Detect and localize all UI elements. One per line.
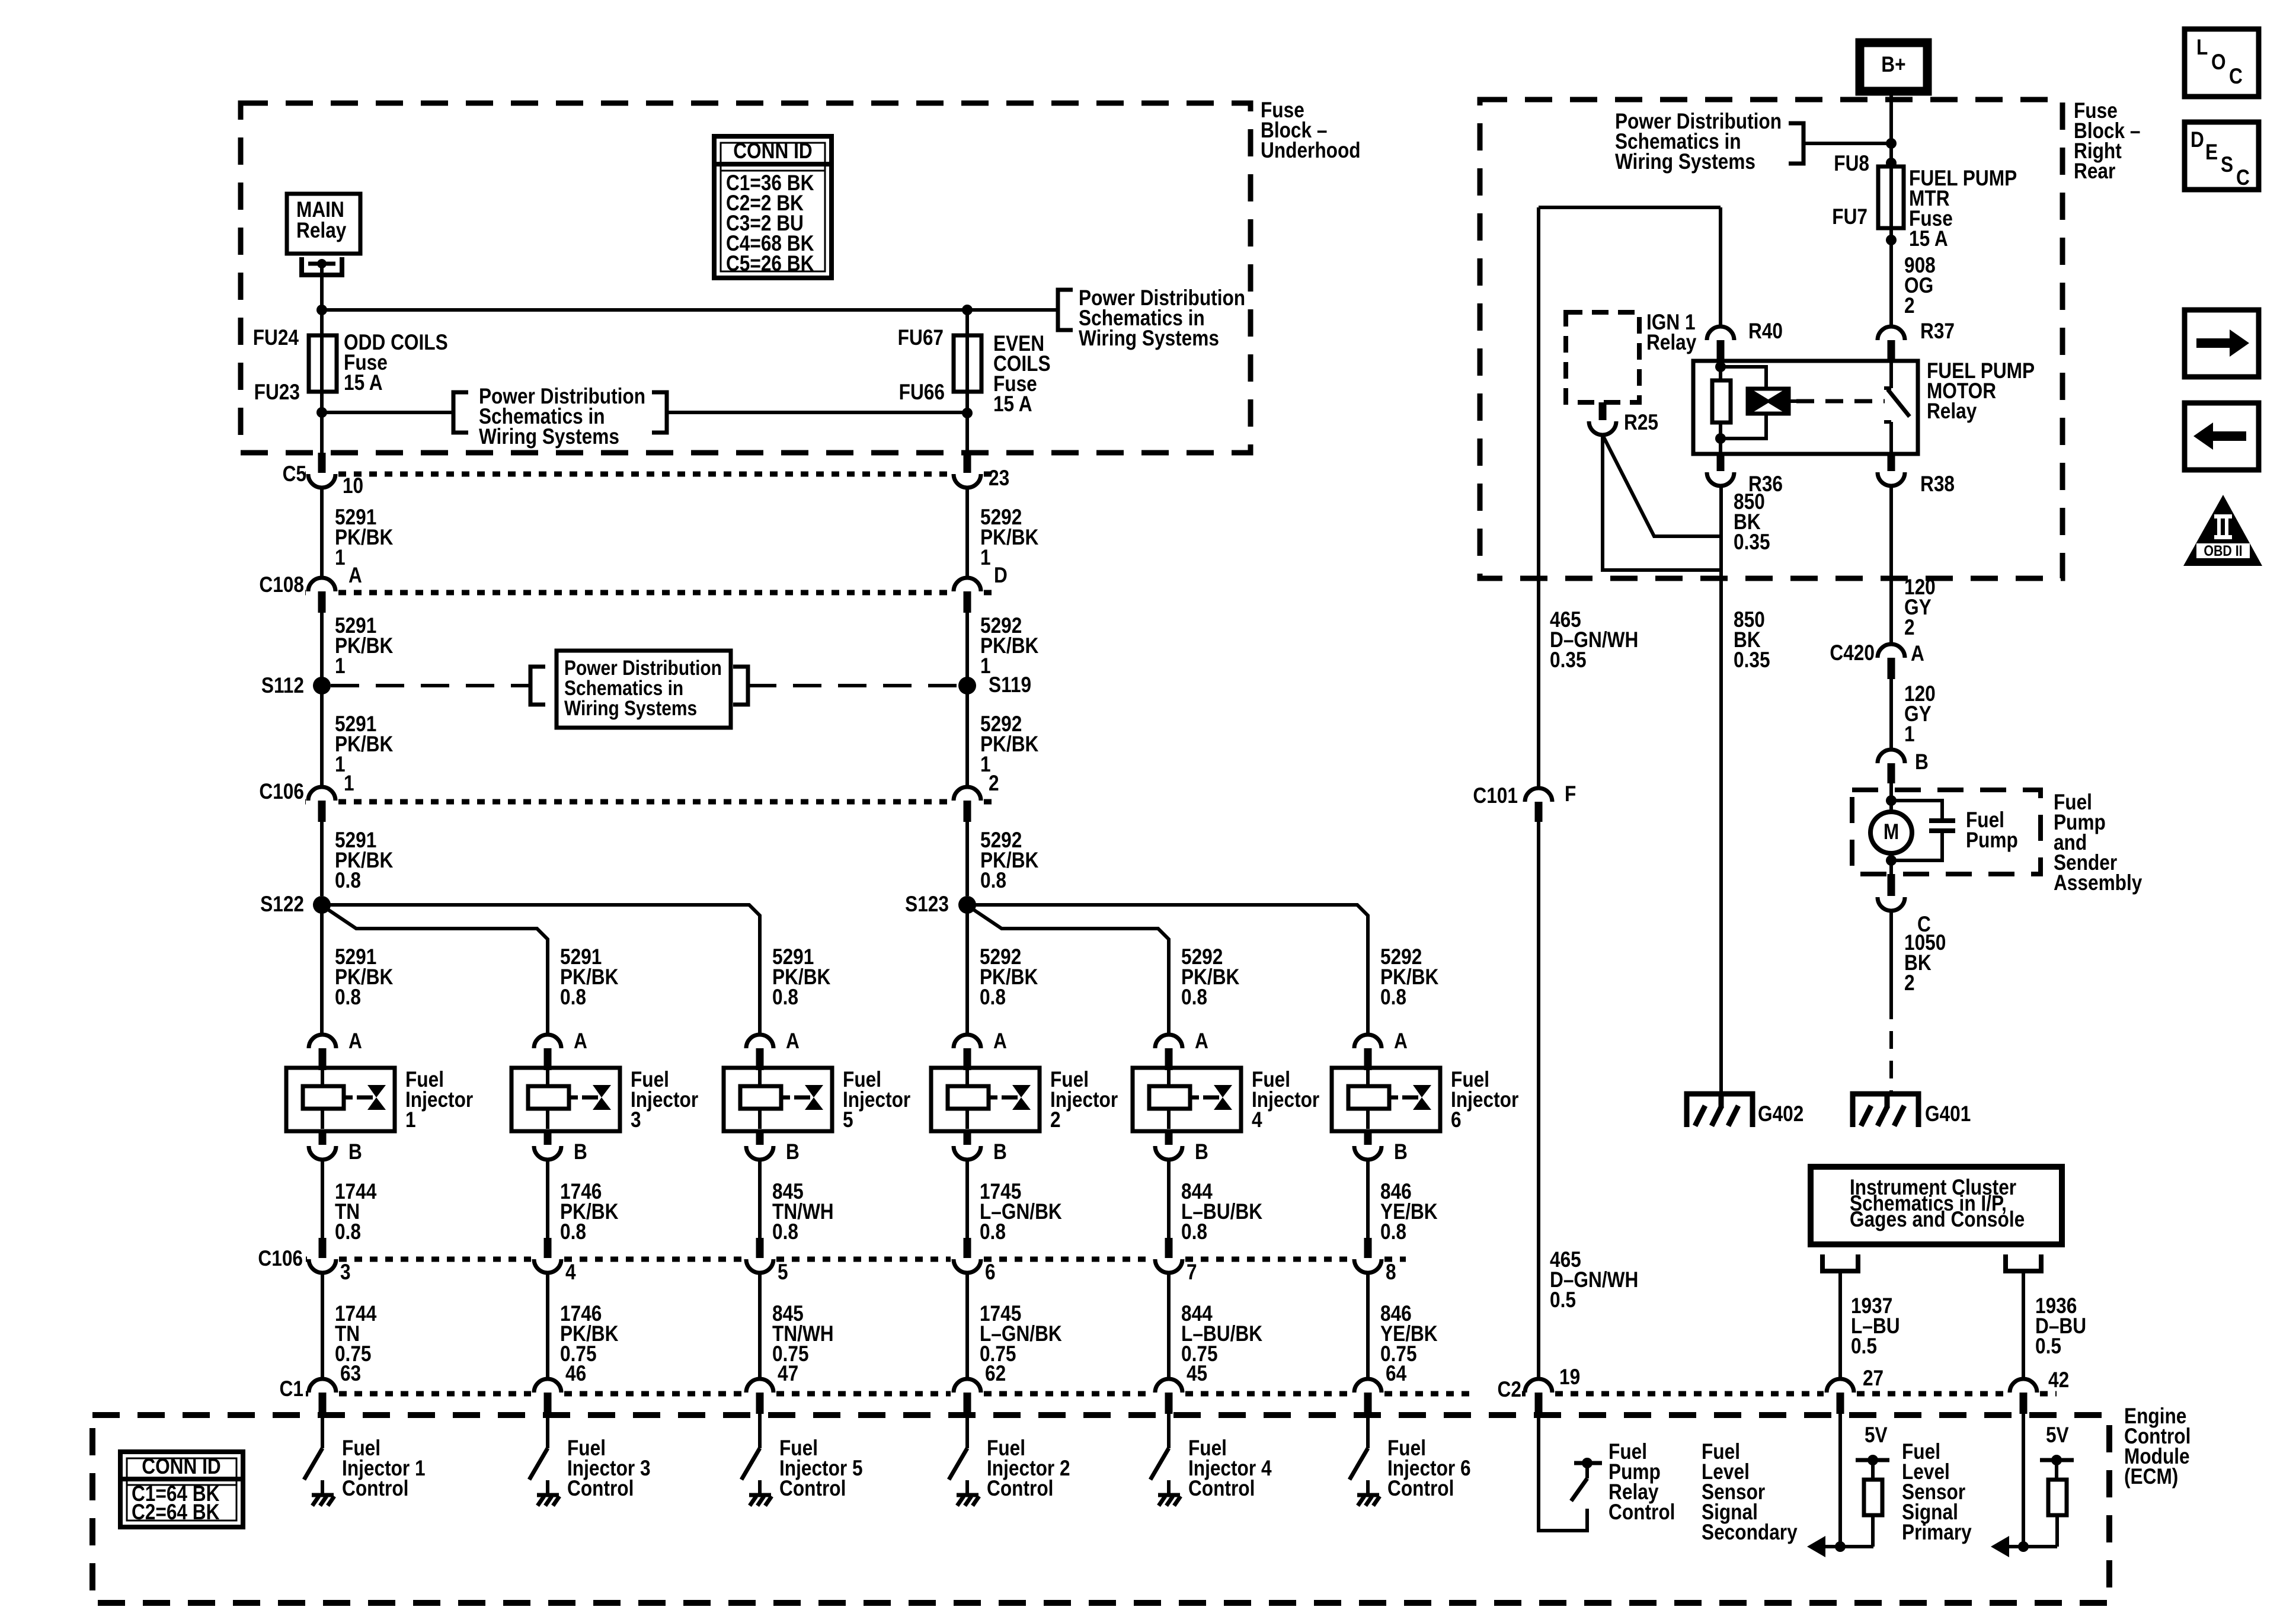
junction above FU8 bbox=[1886, 158, 1897, 168]
svg-text:27: 27 bbox=[1863, 1366, 1884, 1391]
pin number 7 (C106) bbox=[1187, 1260, 1197, 1285]
label: wire 465 D-GN/WH 0.35 bbox=[1550, 608, 1638, 673]
label: wire 1746 PK/BK 0.75 bbox=[560, 1302, 619, 1366]
connector C1 pin 64 bbox=[1354, 1379, 1382, 1414]
svg-text:46: 46 bbox=[565, 1362, 586, 1386]
connector C5 pin 10 (left) bbox=[308, 453, 335, 488]
wire: injector 3 driver to ground bbox=[546, 1480, 549, 1494]
wire: S123 branch to injector 2 column bbox=[965, 905, 969, 1035]
svg-text:2: 2 bbox=[1050, 1108, 1061, 1132]
fuel injector 2 valve bbox=[1002, 1085, 1031, 1110]
wire: pin 27 into ECM bbox=[1838, 1414, 1842, 1547]
engine control module (ECM) enclosure bbox=[92, 1415, 2109, 1603]
svg-text:R25: R25 bbox=[1624, 411, 1658, 435]
relay suppression element bbox=[1721, 367, 1796, 438]
label: wire 5291 PK/BK 0.8 feed injector 1 bbox=[335, 945, 394, 1010]
wire 844 L–BU/BK 0.75 injector 4 bbox=[1167, 1273, 1171, 1380]
svg-text:0.8: 0.8 bbox=[980, 869, 1006, 893]
pin label FU7 bbox=[1832, 205, 1868, 229]
svg-text:FU8: FU8 bbox=[1834, 152, 1869, 176]
label: wire 1937 L-BU 0.5 bbox=[1851, 1294, 1900, 1359]
label C420 bbox=[1830, 641, 1875, 665]
connector pin A injector 5 bbox=[746, 1035, 773, 1070]
pin number 63 (C1) bbox=[340, 1362, 361, 1386]
connector C (pump return) bbox=[1878, 874, 1905, 911]
label: Fuel Injector 5 Control bbox=[779, 1436, 863, 1501]
wire 120 GY 2 bbox=[1889, 486, 1893, 645]
wire: S123 branch to injector 4 column bbox=[969, 907, 1169, 1035]
svg-text:FU67: FU67 bbox=[898, 326, 944, 350]
svg-text:S112: S112 bbox=[261, 674, 304, 698]
pin letter A injector 2 bbox=[993, 1029, 1007, 1054]
connector pin A injector 6 bbox=[1354, 1035, 1382, 1070]
pin number 3 (C106) bbox=[340, 1260, 351, 1285]
label: wire 846 YE/BK 0.75 bbox=[1380, 1302, 1438, 1366]
connector C108 pin A bbox=[308, 578, 335, 613]
svg-text:1: 1 bbox=[335, 546, 346, 570]
svg-text:E: E bbox=[2205, 140, 2218, 165]
wire: injector 4 driver to ground bbox=[1167, 1480, 1171, 1494]
svg-text:0.8: 0.8 bbox=[772, 985, 798, 1010]
svg-text:Control: Control bbox=[1609, 1500, 1675, 1525]
svg-text:A: A bbox=[993, 1029, 1007, 1054]
connector pin B injector 3 bbox=[534, 1131, 561, 1160]
pin letter B injector 6 bbox=[1394, 1140, 1408, 1164]
svg-text:B: B bbox=[1915, 750, 1929, 774]
wire 5292 PK/BK 0.8 segment C106-S123 bbox=[965, 822, 969, 896]
fuel injector 4 box bbox=[1133, 1068, 1241, 1131]
pin label R36 bbox=[1748, 472, 1783, 497]
wire 5292 PK/BK 1 segment 23-D bbox=[965, 488, 969, 578]
label: Fuse Block - Right Rear bbox=[2074, 99, 2140, 184]
fuel injector 1 valve bbox=[357, 1085, 386, 1110]
svg-text:Control: Control bbox=[342, 1477, 408, 1501]
switch: fuel injector 5 driver bbox=[741, 1448, 760, 1480]
svg-text:C2: C2 bbox=[1498, 1378, 1521, 1402]
pin label FU67 bbox=[898, 326, 944, 350]
connector pin A injector 3 bbox=[534, 1035, 561, 1070]
fuse FU8/FU7 FUEL PUMP MTR bbox=[1878, 167, 1904, 228]
connector pin A injector 4 bbox=[1155, 1035, 1182, 1070]
svg-text:L: L bbox=[2196, 36, 2208, 60]
connector C106 pin 1 bbox=[308, 787, 335, 822]
label: wire 908 OG 2 bbox=[1904, 254, 1936, 318]
power node B+ bbox=[1860, 43, 1927, 91]
switch: fuel injector 4 driver bbox=[1150, 1448, 1169, 1480]
junction at bus left bbox=[316, 305, 327, 315]
reference bracket right (mid) bbox=[652, 392, 667, 433]
wire: ECM injector 3 driver lead bbox=[546, 1414, 549, 1448]
label: wire 850 BK 0.35 (in block) bbox=[1734, 490, 1770, 555]
wire: injector 1 driver to ground bbox=[321, 1480, 324, 1494]
svg-text:4: 4 bbox=[1252, 1108, 1262, 1132]
splice S112 bbox=[313, 677, 331, 694]
ground (ECM) injector 5 bbox=[749, 1495, 772, 1506]
label: IGN 1 Relay bbox=[1646, 311, 1696, 355]
svg-text:0.8: 0.8 bbox=[335, 869, 361, 893]
fuel pump motor M bbox=[1870, 812, 1912, 853]
icon arrow right bbox=[2185, 310, 2259, 377]
svg-text:Schematics in: Schematics in bbox=[564, 677, 683, 700]
label: wire 465 D-GN/WH 0.5 bbox=[1550, 1248, 1638, 1313]
svg-text:A: A bbox=[574, 1029, 587, 1054]
fuse FU67/FU66 EVEN COILS bbox=[954, 310, 981, 413]
pin number 4 (C106) bbox=[565, 1260, 576, 1285]
svg-text:4: 4 bbox=[565, 1260, 576, 1285]
svg-text:B: B bbox=[786, 1140, 800, 1164]
label: Fuel Level Sensor Signal Secondary bbox=[1702, 1440, 1798, 1545]
wire 908 OG 2 bbox=[1889, 228, 1893, 327]
wire 1746 PK/BK 0.8 injector 3 bbox=[546, 1160, 549, 1238]
svg-text:15 A: 15 A bbox=[1909, 227, 1948, 251]
reference bracket left (mid) bbox=[453, 392, 468, 433]
svg-text:B: B bbox=[348, 1140, 362, 1164]
label: wire 850 BK 0.35 (to G402) bbox=[1734, 608, 1770, 673]
connector C2 pin 42 bbox=[2010, 1379, 2037, 1414]
wire 5291 PK/BK 0.8 segment C106-S122 bbox=[320, 822, 324, 896]
svg-text:Wiring Systems: Wiring Systems bbox=[1615, 150, 1755, 174]
pin number 46 (C1) bbox=[565, 1362, 586, 1386]
wire: S123 branch to injector 6 column bbox=[967, 905, 1368, 1035]
signal arrow (primary) bbox=[1991, 1536, 2009, 1557]
signal arrow (secondary) bbox=[1807, 1536, 1825, 1557]
svg-text:Wiring Systems: Wiring Systems bbox=[564, 697, 697, 720]
fuel injector 6 valve bbox=[1402, 1085, 1431, 1110]
junction pump top bbox=[1886, 795, 1897, 806]
splice S123 bbox=[958, 896, 976, 914]
label: wire 120 GY 1 bbox=[1904, 682, 1936, 747]
svg-text:B: B bbox=[1394, 1140, 1408, 1164]
svg-text:Control: Control bbox=[987, 1477, 1053, 1501]
pin letter A injector 1 bbox=[348, 1029, 362, 1054]
svg-text:R40: R40 bbox=[1748, 319, 1783, 344]
svg-text:0.35: 0.35 bbox=[1550, 648, 1587, 673]
pin letter A (C420) bbox=[1911, 642, 1924, 666]
relay switch bbox=[1884, 361, 1910, 454]
wire 846 YE/BK 0.8 injector 6 bbox=[1366, 1160, 1370, 1238]
wire: pump feed inside assembly bbox=[1889, 783, 1893, 812]
svg-text:63: 63 bbox=[340, 1362, 361, 1386]
wire 5291 PK/BK 1 segment C5-C108 bbox=[320, 488, 324, 578]
fuel injector 4 valve bbox=[1203, 1085, 1232, 1110]
wire 1050 BK 2 dashed segment bbox=[1889, 1001, 1893, 1093]
svg-text:Pump: Pump bbox=[1966, 828, 2018, 853]
label: wire 1745 L–GN/BK 0.8 bbox=[980, 1180, 1062, 1244]
svg-text:A: A bbox=[786, 1029, 800, 1054]
label: Fuel Injector 3 bbox=[631, 1068, 698, 1132]
connector row C1/C2 dashed line bbox=[306, 1391, 2057, 1397]
wire: bracket to FU66 junction bbox=[667, 411, 968, 414]
label: wire 5292 PK/BK 0.8 (seg4 right) bbox=[980, 828, 1039, 893]
connector C106 pin 4 bbox=[534, 1238, 561, 1273]
ground (ECM) injector 1 bbox=[312, 1495, 334, 1506]
pin label R40 bbox=[1748, 319, 1783, 344]
svg-text:15 A: 15 A bbox=[344, 371, 383, 395]
label: Fuel Injector 6 bbox=[1451, 1068, 1518, 1132]
connector table CONN ID (underhood) bbox=[714, 136, 832, 278]
connector row C108 dashed line bbox=[305, 590, 999, 596]
pin letter F (C101) bbox=[1565, 782, 1576, 806]
svg-text:Rear: Rear bbox=[2074, 159, 2115, 184]
label G402 bbox=[1758, 1102, 1803, 1126]
svg-text:0.8: 0.8 bbox=[560, 1220, 586, 1244]
reference box Power Distribution (S112-S119) bbox=[557, 651, 731, 728]
ground (ECM) injector 2 bbox=[957, 1495, 979, 1506]
splice S119 bbox=[958, 677, 976, 694]
label: EVEN COILS Fuse 15 A bbox=[993, 332, 1051, 417]
label: wire 5291 PK/BK 0.8 (seg4 left) bbox=[335, 828, 394, 893]
label: wire 844 L–BU/BK 0.8 bbox=[1181, 1180, 1262, 1244]
label: Fuel Injector 4 bbox=[1252, 1068, 1319, 1132]
MAIN relay terminal connector bbox=[302, 257, 342, 275]
label C1 bbox=[280, 1377, 303, 1401]
label: wire 1745 L–GN/BK 0.75 bbox=[980, 1302, 1062, 1366]
junction below FU23 bbox=[316, 407, 327, 418]
junction at bus even fuse bbox=[962, 305, 973, 315]
fuel injector 5 box bbox=[724, 1068, 832, 1131]
reference bracket right-rear bbox=[1789, 123, 1803, 164]
svg-text:C106: C106 bbox=[259, 780, 304, 804]
label S112 bbox=[261, 674, 304, 698]
reference bracket right of S112 box bbox=[733, 667, 748, 705]
svg-text:5V: 5V bbox=[2046, 1423, 2069, 1448]
switch: fuel pump relay driver bbox=[1571, 1458, 1602, 1501]
connector C106 pin 2 bbox=[954, 787, 981, 822]
svg-text:B: B bbox=[1195, 1140, 1208, 1164]
wire 850 BK 0.35 to G402 bbox=[1719, 486, 1723, 1094]
label G401 bbox=[1925, 1102, 1971, 1126]
pin letter C (pump) bbox=[1917, 913, 1931, 937]
label C106 (row 1) bbox=[259, 780, 304, 804]
svg-text:CONN ID: CONN ID bbox=[733, 139, 813, 164]
svg-text:Relay: Relay bbox=[1927, 399, 1977, 424]
svg-text:6: 6 bbox=[1451, 1108, 1462, 1132]
wire 1744 TN 0.75 injector 1 bbox=[321, 1273, 324, 1380]
svg-text:Control: Control bbox=[1188, 1477, 1255, 1501]
svg-text:C420: C420 bbox=[1830, 641, 1875, 665]
label: FUEL PUMP MTR Fuse 15 A bbox=[1909, 167, 2017, 251]
fuel injector 5 coil bbox=[740, 1070, 790, 1129]
svg-text:A: A bbox=[1195, 1029, 1208, 1054]
svg-text:CONN ID: CONN ID bbox=[142, 1455, 221, 1479]
svg-text:Control: Control bbox=[779, 1477, 846, 1501]
5V source (primary) bbox=[2040, 1423, 2074, 1480]
wire: ECM injector 6 driver lead bbox=[1366, 1414, 1370, 1448]
pin label FU66 bbox=[899, 380, 945, 405]
wire 5291 PK/BK 1 segment C108-S112 bbox=[320, 613, 324, 677]
pin number 23 bbox=[989, 466, 1009, 491]
wire: B+ down to fuse bbox=[1889, 91, 1893, 167]
label: wire 5292 PK/BK 1 (seg3 right) bbox=[980, 712, 1039, 777]
svg-text:0.5: 0.5 bbox=[1550, 1288, 1576, 1313]
svg-text:64: 64 bbox=[1386, 1362, 1406, 1386]
svg-text:3: 3 bbox=[631, 1108, 641, 1132]
svg-text:C106: C106 bbox=[258, 1247, 303, 1271]
svg-text:C101: C101 bbox=[1473, 784, 1518, 808]
pin letter A injector 4 bbox=[1195, 1029, 1208, 1054]
svg-text:0.8: 0.8 bbox=[1380, 1220, 1406, 1244]
label: Engine Control Module (ECM) bbox=[2124, 1404, 2191, 1489]
svg-text:FU66: FU66 bbox=[899, 380, 945, 405]
junction below FU66 bbox=[962, 408, 973, 418]
fuse FU24/FU23 ODD COILS bbox=[309, 310, 337, 412]
svg-text:0.8: 0.8 bbox=[335, 985, 361, 1010]
relay IGN 1 (dashed box) bbox=[1566, 312, 1639, 402]
label: Fuel Injector 1 bbox=[405, 1068, 473, 1132]
fuel injector 5 valve bbox=[794, 1085, 823, 1110]
svg-text:0.5: 0.5 bbox=[1851, 1334, 1877, 1359]
wire 846 YE/BK 0.75 injector 6 bbox=[1366, 1273, 1370, 1380]
connector pin B injector 2 bbox=[954, 1131, 981, 1160]
svg-text:Power Distribution: Power Distribution bbox=[564, 657, 722, 680]
svg-text:R38: R38 bbox=[1920, 472, 1955, 497]
svg-text:23: 23 bbox=[989, 466, 1009, 491]
fuel injector 2 box bbox=[931, 1068, 1040, 1131]
reference bracket to Power Distribution (top) bbox=[1058, 290, 1073, 330]
svg-text:0.8: 0.8 bbox=[1181, 1220, 1207, 1244]
svg-text:G402: G402 bbox=[1758, 1102, 1803, 1126]
wire: ECM injector 5 driver lead bbox=[758, 1414, 762, 1448]
pin letter B injector 3 bbox=[574, 1140, 587, 1164]
pump suppression capacitor bbox=[1891, 801, 1955, 860]
svg-text:10: 10 bbox=[343, 474, 363, 498]
wire 845 TN/WH 0.75 injector 5 bbox=[758, 1273, 762, 1380]
label C108 bbox=[259, 573, 304, 597]
wire: power bus bbox=[322, 308, 1056, 312]
wire: FU23 to reference bracket bbox=[322, 411, 453, 414]
connector table CONN ID (ECM) bbox=[120, 1452, 243, 1527]
wire 1745 L–GN/BK 0.75 injector 2 bbox=[965, 1273, 969, 1380]
svg-text:FU23: FU23 bbox=[254, 380, 300, 405]
fuel injector 6 box bbox=[1332, 1068, 1440, 1131]
svg-text:Relay: Relay bbox=[1646, 331, 1696, 355]
pin letter B (pump) bbox=[1915, 750, 1929, 774]
fuel pump and sender assembly enclosure bbox=[1852, 790, 2041, 874]
label: Fuel Pump Relay Control bbox=[1609, 1440, 1675, 1525]
connector C1 pin 45 bbox=[1155, 1379, 1182, 1414]
label: Fuel Injector 3 Control bbox=[567, 1436, 651, 1501]
label C101 bbox=[1473, 784, 1518, 808]
svg-text:8: 8 bbox=[1386, 1260, 1396, 1285]
label: wire 5291 PK/BK 1 (seg3 left) bbox=[335, 712, 394, 777]
icon DESC bbox=[2185, 122, 2259, 190]
svg-text:1: 1 bbox=[405, 1108, 416, 1132]
svg-text:1: 1 bbox=[1904, 722, 1915, 747]
label: Fuel Injector 2 bbox=[1050, 1068, 1118, 1132]
wire: fuel pump relay control lead bbox=[1539, 1414, 1587, 1531]
svg-text:1: 1 bbox=[335, 654, 346, 678]
connector pin B injector 6 bbox=[1354, 1131, 1382, 1160]
svg-text:2: 2 bbox=[1904, 971, 1915, 996]
svg-text:45: 45 bbox=[1187, 1362, 1207, 1386]
relay MAIN Relay box bbox=[287, 194, 360, 254]
svg-text:Primary: Primary bbox=[1902, 1521, 1972, 1545]
wire: R25 to ground elbow bbox=[1603, 435, 1721, 570]
wire: MAIN relay to bus junction bbox=[320, 264, 324, 310]
svg-text:0.8: 0.8 bbox=[980, 1220, 1006, 1244]
pin number 64 (C1) bbox=[1386, 1362, 1406, 1386]
fuel injector 1 box bbox=[286, 1068, 395, 1131]
pin letter B injector 2 bbox=[993, 1140, 1007, 1164]
connector R25 bbox=[1589, 402, 1616, 435]
svg-text:19: 19 bbox=[1559, 1365, 1580, 1390]
svg-text:47: 47 bbox=[778, 1362, 798, 1386]
pin number 47 (C1) bbox=[778, 1362, 798, 1386]
svg-text:OBD II: OBD II bbox=[2204, 542, 2242, 559]
ground G402 bbox=[1687, 1094, 1753, 1127]
connector R38 bbox=[1878, 454, 1905, 486]
svg-text:C5: C5 bbox=[283, 462, 306, 486]
svg-text:A: A bbox=[1911, 642, 1924, 666]
label S122 bbox=[260, 892, 304, 917]
pin number 62 (C1) bbox=[985, 1362, 1006, 1386]
label: Fuel Injector 2 Control bbox=[987, 1436, 1070, 1501]
svg-text:S123: S123 bbox=[905, 892, 949, 917]
wire: injector 2 driver to ground bbox=[965, 1480, 969, 1494]
svg-text:C: C bbox=[2236, 166, 2250, 190]
svg-text:C: C bbox=[2229, 65, 2243, 89]
label: wire 844 L–BU/BK 0.75 bbox=[1181, 1302, 1262, 1366]
connector pin B injector 1 bbox=[309, 1131, 336, 1160]
label: wire 845 TN/WH 0.75 bbox=[772, 1302, 834, 1366]
label C5 bbox=[283, 462, 306, 486]
reference bracket left of S112 box bbox=[530, 667, 545, 705]
label: wire 5292 PK/BK 0.8 feed injector 2 bbox=[980, 945, 1038, 1010]
svg-text:A: A bbox=[1394, 1029, 1408, 1054]
pin letter D (C108) bbox=[994, 564, 1008, 588]
svg-text:G401: G401 bbox=[1925, 1102, 1971, 1126]
cluster stub left bbox=[1822, 1254, 1858, 1271]
label: wire 5291 PK/BK 1 (seg2 left) bbox=[335, 614, 394, 678]
pin letter A injector 3 bbox=[574, 1029, 587, 1054]
wire 5292 PK/BK 1 segment D-S119 bbox=[965, 613, 969, 677]
junction on B+ feed bbox=[1886, 138, 1897, 149]
icon arrow left bbox=[2185, 403, 2259, 470]
svg-text:0.8: 0.8 bbox=[772, 1220, 798, 1244]
svg-text:FU7: FU7 bbox=[1832, 205, 1868, 229]
pin label FU24 bbox=[253, 326, 299, 350]
connector row C106 (pins 3-8) dashed line bbox=[306, 1257, 1406, 1262]
svg-text:FU24: FU24 bbox=[253, 326, 299, 350]
connector C106 pin 3 bbox=[309, 1238, 336, 1273]
label: wire 1746 PK/BK 0.8 bbox=[560, 1180, 619, 1244]
wire: secondary signal node bbox=[1824, 1541, 1873, 1552]
pin letter A injector 6 bbox=[1394, 1029, 1408, 1054]
wire 1937 L-BU 0.5 bbox=[1838, 1271, 1842, 1380]
label: wire 845 TN/WH 0.8 bbox=[772, 1180, 834, 1244]
svg-text:C1: C1 bbox=[280, 1377, 303, 1401]
dashed link reference to S119 bbox=[748, 684, 958, 687]
ground (ECM) injector 3 bbox=[537, 1495, 559, 1506]
connector C5 pin 23 (right) bbox=[954, 453, 981, 488]
wire: S122 branch to injector 1 column bbox=[320, 905, 324, 1035]
label: wire 120 GY 2 bbox=[1904, 575, 1936, 640]
wire: primary signal node bbox=[2008, 1541, 2057, 1552]
svg-text:0.35: 0.35 bbox=[1734, 530, 1770, 555]
connector C1 pin 62 bbox=[954, 1379, 981, 1414]
wire 1050 BK 2 bbox=[1889, 911, 1893, 1001]
svg-text:A: A bbox=[348, 564, 362, 588]
pin label FU23 bbox=[254, 380, 300, 405]
svg-text:Wiring Systems: Wiring Systems bbox=[479, 425, 619, 449]
pin letter B injector 4 bbox=[1195, 1140, 1208, 1164]
connector row C5/23 dashed line bbox=[305, 472, 999, 477]
wire: S122 branch to injector 3 column bbox=[324, 907, 548, 1035]
pin number 19 bbox=[1559, 1365, 1580, 1390]
svg-text:0.8: 0.8 bbox=[1380, 985, 1406, 1010]
connector R37 bbox=[1878, 327, 1905, 361]
wire: pin 42 into ECM bbox=[2022, 1414, 2025, 1547]
